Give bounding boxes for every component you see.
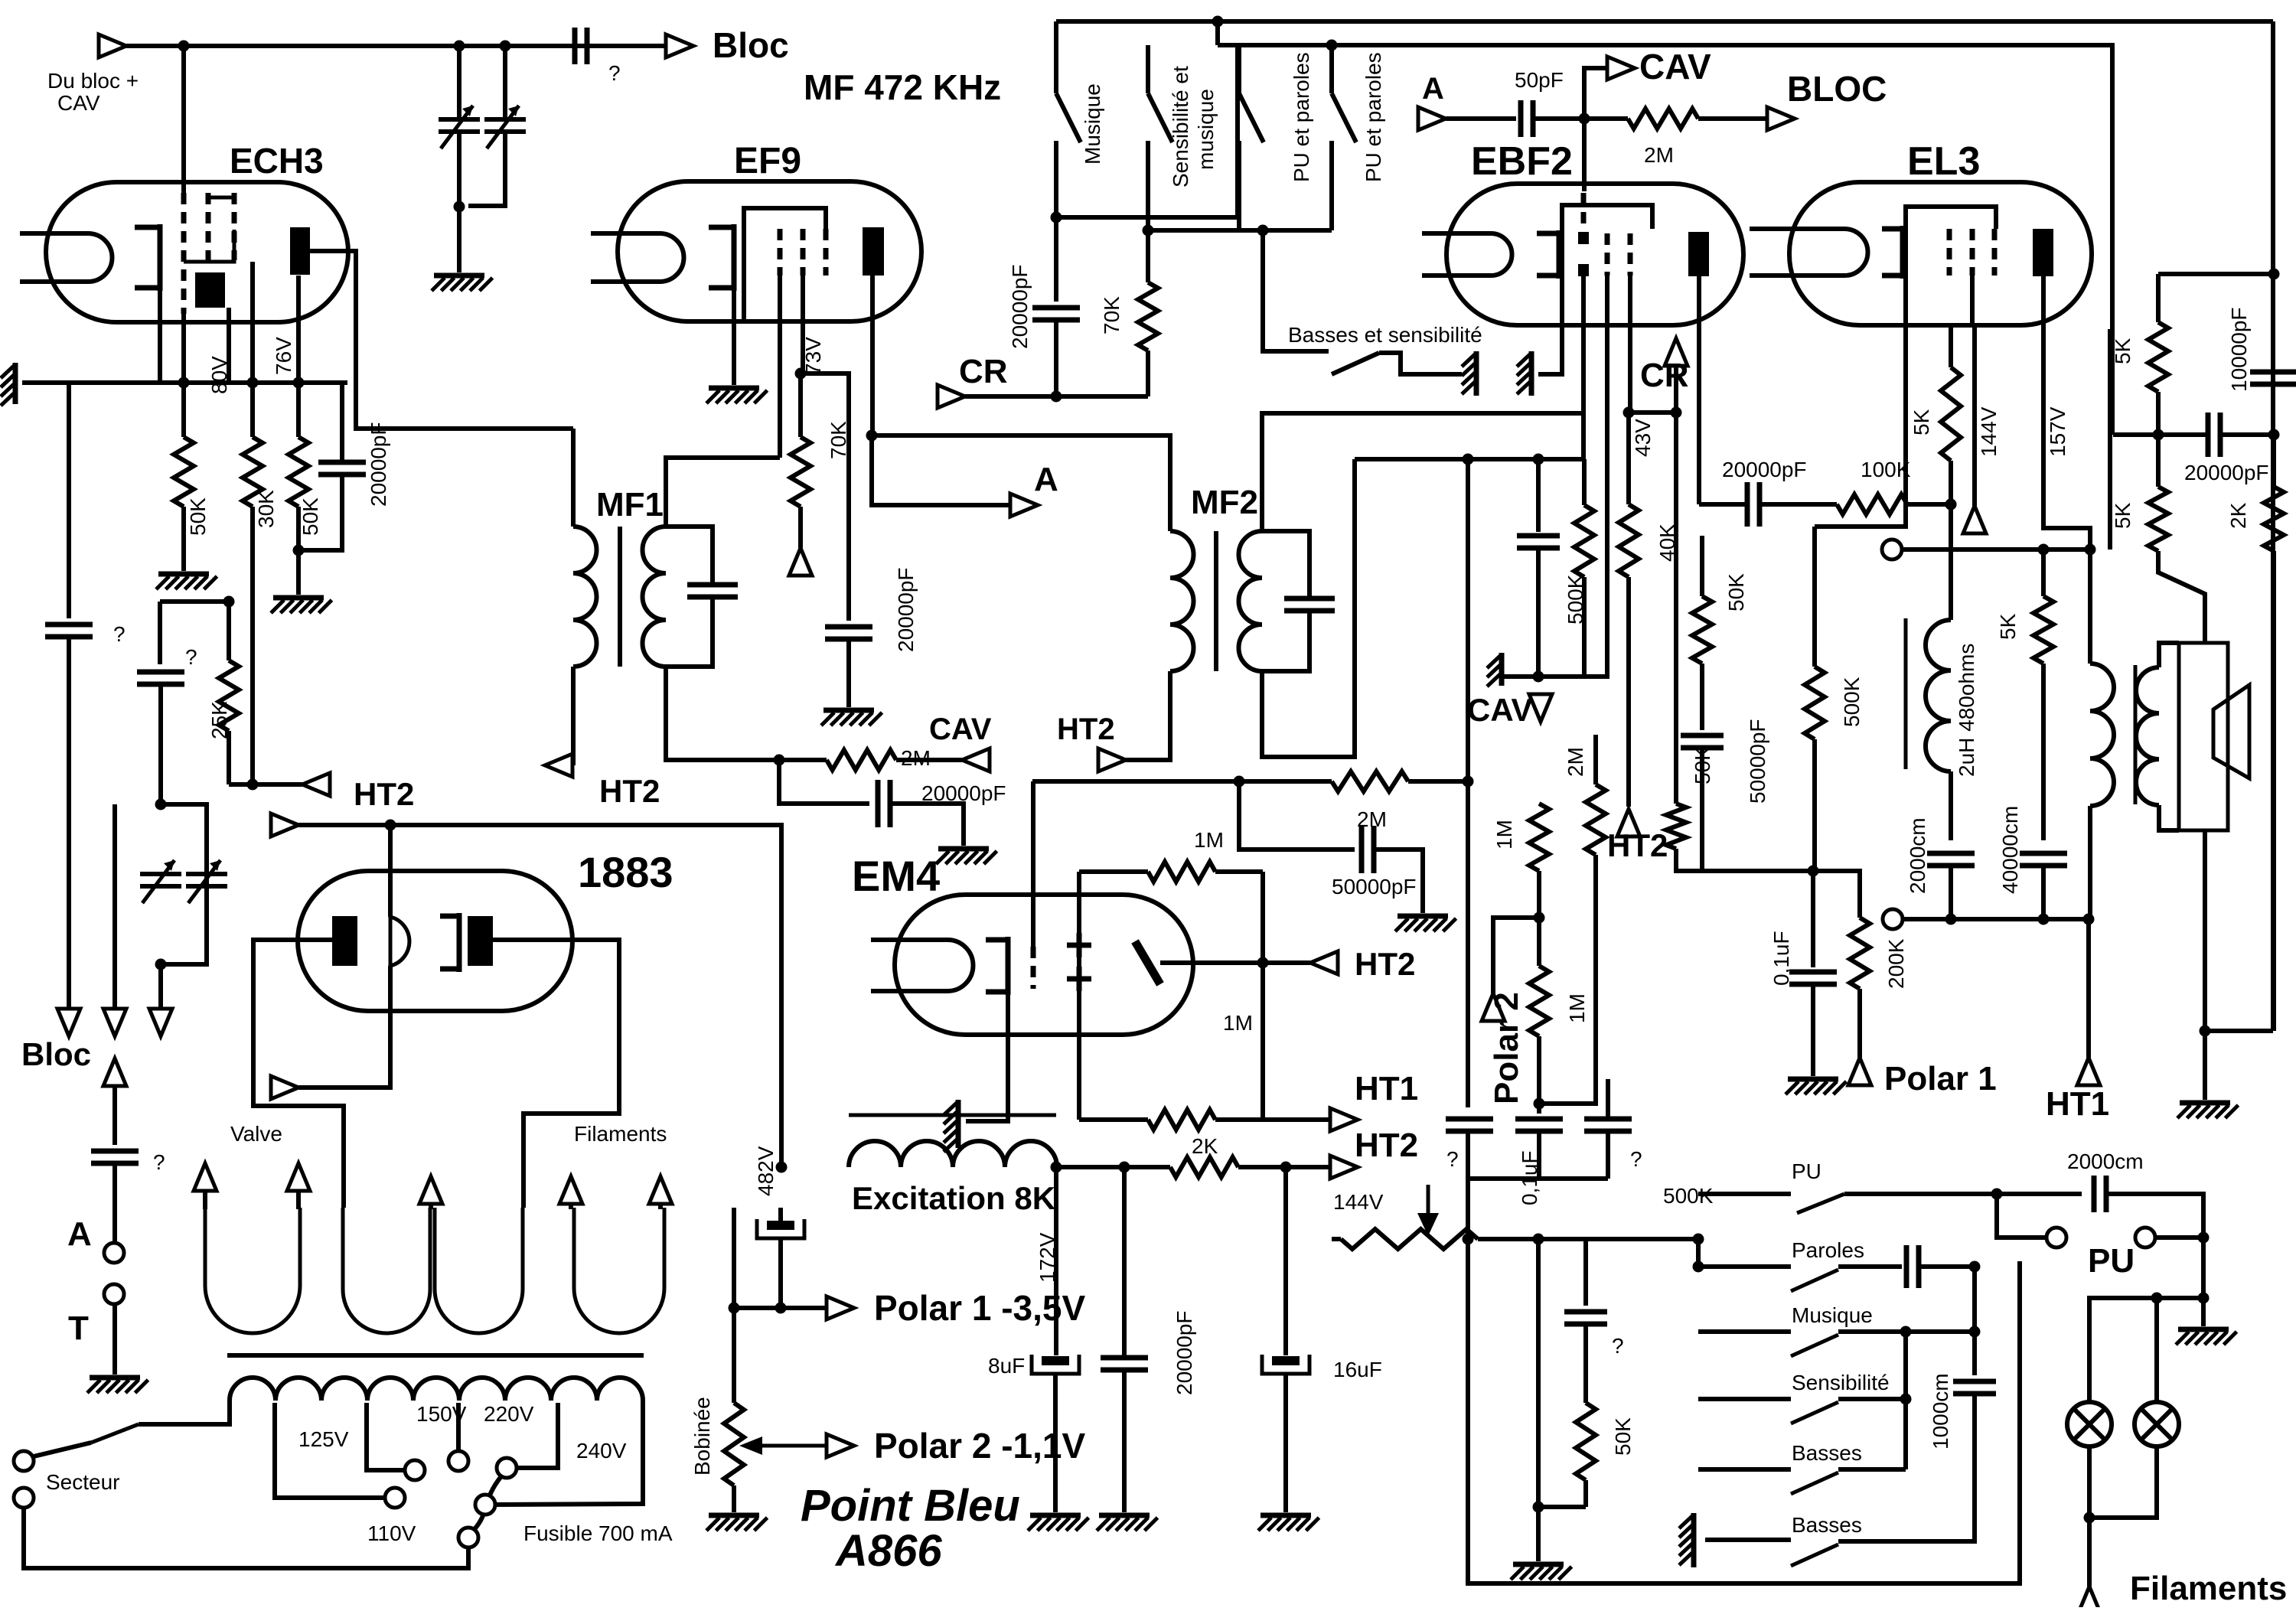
junction: [155, 799, 167, 810]
ground: [1487, 653, 1502, 686]
tube label ECH3: [230, 141, 324, 181]
junction: [1534, 1098, 1545, 1110]
grid EL3 g1: [1947, 229, 1952, 276]
wire HT2 bus: [298, 825, 781, 1167]
svg-text:Excitation 8K: Excitation 8K: [852, 1180, 1055, 1216]
svg-text:Filaments: Filaments: [2130, 1570, 2287, 1607]
capacitor ?: [45, 625, 93, 637]
svg-text:Valve: Valve: [230, 1122, 282, 1146]
label 80V: [207, 356, 231, 394]
terminal PU jack 1: [2047, 1228, 2066, 1247]
svg-text:HT2: HT2: [1355, 946, 1415, 982]
coil MF2 secondary: [1238, 531, 1262, 671]
core excitation: [849, 1114, 1056, 1117]
terminal 110V: [385, 1488, 405, 1508]
svg-text:Bloc: Bloc: [21, 1036, 91, 1072]
resistor 50K: [1666, 804, 1686, 849]
wire top right bus: [2271, 21, 2275, 1031]
label HT2: [1057, 713, 1115, 746]
node CAV arrow: [962, 748, 990, 771]
capacitor 50pF: [1521, 100, 1533, 137]
resistor 50K: [1692, 536, 1712, 664]
wire secteur bottom: [24, 1508, 468, 1568]
svg-text:1M: 1M: [1223, 1011, 1253, 1035]
resistor 1M: [1079, 1110, 1263, 1130]
terminal A: [104, 1243, 124, 1263]
wire to BLOC: [1745, 116, 1767, 121]
inductor Excitation 8K: [849, 1141, 1057, 1167]
svg-text:MF 472 KHz: MF 472 KHz: [804, 67, 1001, 107]
node CAV arrow down: [1529, 694, 1552, 722]
wire polcap down: [778, 1238, 783, 1308]
wire cap q col: [1583, 1239, 1588, 1306]
wire HT1 col: [2086, 919, 2091, 1058]
junction: [223, 596, 235, 608]
svg-text:CAV: CAV: [1467, 692, 1533, 728]
node CR arrow up: [1665, 338, 1688, 366]
wire CR stem: [1674, 366, 1678, 413]
label CAV: [1639, 47, 1711, 86]
junction: [1051, 1162, 1062, 1173]
wire left column: [67, 383, 71, 618]
resistor 500K: [1574, 459, 1594, 677]
tube label EBF2: [1471, 139, 1573, 184]
svg-text:PU: PU: [1792, 1159, 1821, 1183]
label A866: [834, 1526, 942, 1576]
resistor 2K: [2264, 435, 2284, 1031]
wire CAV bus: [1466, 459, 1470, 1107]
label 50000pF: [1746, 719, 1769, 804]
svg-text:musique: musique: [1194, 89, 1218, 170]
label 500K: [1564, 574, 1587, 625]
ground: [1097, 1515, 1158, 1531]
node Polar 2 arrow: [827, 1434, 854, 1457]
wire trimmer right: [503, 46, 507, 120]
label 2K: [1192, 1134, 1218, 1158]
label 50K: [1691, 746, 1714, 784]
wire screen lead down: [1560, 325, 1564, 329]
grid EL3 g3: [1992, 229, 1998, 276]
label 50K: [1611, 1417, 1635, 1456]
ground: [1, 363, 15, 406]
label Polar 2: [1488, 992, 1525, 1104]
wire input bus: [126, 44, 586, 48]
wire row paroles wire: [1698, 1264, 1791, 1269]
wire cap ? bottom: [158, 684, 163, 804]
svg-text:2M: 2M: [1644, 143, 1674, 167]
resistor 2M: [779, 750, 962, 770]
label 20000pF: [2184, 461, 2269, 484]
wire lead: [203, 1191, 207, 1209]
svg-text:2000cm: 2000cm: [1906, 817, 1929, 894]
diode plate 2: [1578, 264, 1589, 276]
wire to ground: [296, 550, 301, 595]
label 50K: [1724, 573, 1748, 611]
cathode 1883 bracket: [440, 913, 459, 972]
wire to CAV arrow: [1584, 68, 1607, 119]
label Paroles: [1792, 1238, 1864, 1262]
svg-text:?: ?: [1612, 1334, 1624, 1358]
wire jack right: [2155, 1235, 2203, 1240]
junction: [500, 41, 511, 52]
wire cap bottom: [1054, 320, 1058, 396]
wire 2M top: [1593, 735, 1598, 784]
wire EL3 grid box: [1906, 207, 1996, 325]
trimmer capacitor CV1: [439, 106, 480, 148]
wire osc grid node: [160, 599, 229, 604]
svg-text:1M: 1M: [1565, 993, 1589, 1023]
wire EM4 target column: [1077, 872, 1081, 1120]
node Polar 1 arrow: [1848, 1058, 1871, 1085]
svg-text:20000pF: 20000pF: [367, 422, 390, 507]
wire polar2 branch: [1493, 918, 1539, 993]
resistor 1M: [1529, 804, 1549, 871]
wire g2 lead: [250, 262, 255, 383]
anode EM4 bar: [1135, 941, 1160, 984]
label Polar 1 -3,5V: [874, 1288, 1085, 1328]
tube label EM4: [852, 852, 940, 900]
junction: [1991, 1189, 2003, 1200]
label HT2: [354, 776, 414, 812]
cathode ECH3: [135, 224, 160, 291]
wire 20000 col: [1122, 1167, 1127, 1358]
svg-text:76V: 76V: [272, 337, 295, 375]
svg-text:2K: 2K: [1192, 1134, 1218, 1158]
wire row301: [1148, 228, 1332, 233]
label 20000pF: [921, 781, 1006, 805]
resistor 2M: [1586, 784, 1606, 855]
resistor 40K: [1619, 504, 1639, 807]
svg-text:Sensibilité et: Sensibilité et: [1169, 66, 1192, 188]
resistor 50K: [174, 383, 194, 571]
coil MF1 secondary: [642, 527, 666, 667]
wire cap to node: [1534, 116, 1584, 121]
resistor 50K: [1576, 1403, 1596, 1507]
switch Sensibilité: [1791, 1402, 1838, 1423]
junction: [2151, 1293, 2163, 1304]
label 2M: [1564, 747, 1587, 777]
ground: [821, 710, 882, 726]
svg-text:2M: 2M: [901, 746, 931, 770]
svg-text:10000pF: 10000pF: [2227, 307, 2251, 392]
wire 50K column: [1674, 413, 1678, 804]
node A arrow: [1010, 494, 1038, 517]
label PU: [2088, 1242, 2135, 1280]
label 50000pF: [1332, 875, 1417, 898]
wire basses link: [1838, 1467, 1906, 1472]
svg-text:40K: 40K: [1655, 523, 1679, 562]
capacitor 20000pF: [825, 627, 872, 639]
label 144V: [1333, 1190, 1384, 1214]
wire MF1 cap: [666, 527, 713, 585]
svg-text:50K: 50K: [186, 497, 210, 536]
wire PU row: [1698, 1192, 1791, 1196]
wire 50000 row: [1239, 781, 1355, 850]
wire second bus: [1218, 45, 2112, 435]
svg-text:5K: 5K: [2111, 502, 2135, 529]
capacitor 10000pF: [2250, 372, 2296, 384]
wire selector cable: [475, 1476, 501, 1529]
label 20000pF: [1008, 264, 1032, 349]
label PU et paroles: [1290, 52, 1313, 182]
lamp dial 1: [2067, 1402, 2112, 1446]
capacitor 20000pF: [318, 462, 366, 474]
junction: [1693, 1234, 1704, 1245]
node Polar 2 arrow: [1482, 993, 1505, 1021]
svg-text:20000pF: 20000pF: [1722, 458, 1807, 481]
label 70K: [827, 421, 850, 459]
junction: [2198, 1232, 2210, 1244]
wire fb diag: [2158, 551, 2205, 643]
svg-text:20000pF: 20000pF: [1172, 1310, 1196, 1395]
ground: [156, 574, 217, 589]
svg-text:144V: 144V: [1333, 1190, 1384, 1214]
label 10000pF: [2227, 307, 2251, 392]
label 30K: [254, 490, 278, 528]
wire EL3 grid down: [1815, 325, 1906, 527]
core MF2: [1214, 531, 1218, 671]
ground: [1517, 351, 1531, 396]
svg-text:Polar 2 -1,1V: Polar 2 -1,1V: [874, 1426, 1085, 1466]
wire antenna column: [113, 804, 117, 1009]
wire 1000cm col: [1972, 1267, 1977, 1375]
wire EBF2 g3 down: [1628, 276, 1632, 413]
wire 8uF gnd: [1053, 1374, 1058, 1512]
junction: [1671, 407, 1682, 419]
ground: [87, 1378, 148, 1393]
wire grid1 input: [181, 46, 186, 193]
resistor 200K: [1850, 918, 1870, 1058]
svg-text:PU: PU: [2088, 1242, 2135, 1280]
wire 1883 right anode: [493, 940, 619, 1208]
label ?: [1612, 1334, 1624, 1358]
junction: [2085, 544, 2096, 556]
label 76V: [272, 337, 295, 375]
svg-text:Paroles: Paroles: [1792, 1238, 1864, 1262]
wire trimmer join: [457, 132, 461, 207]
switch PU et paroles 2 contact 2: [1329, 141, 1334, 230]
node arrow up: [103, 1058, 126, 1086]
label 1000cm: [1929, 1373, 1952, 1450]
junction: [1533, 454, 1544, 465]
wire speaker down: [2203, 830, 2207, 1031]
svg-text:T: T: [68, 1309, 89, 1347]
switch PU: [1797, 1194, 1844, 1213]
svg-text:Polar 1 -3,5V: Polar 1 -3,5V: [874, 1288, 1085, 1328]
label 500K: [1663, 1184, 1714, 1208]
node HT2 arrow: [1098, 748, 1126, 771]
anode EL3: [2033, 229, 2053, 276]
tube ECH3 envelope: [46, 182, 348, 322]
svg-text:150V: 150V: [416, 1402, 467, 1426]
label 5K: [2111, 502, 2135, 529]
wire 50K bot: [1538, 1505, 1586, 1509]
core output transformer: [2134, 665, 2138, 804]
cathode EM4: [986, 937, 1008, 995]
coil MF2 primary: [1170, 531, 1193, 671]
resistor 70K: [1138, 230, 1158, 351]
wire bottom bus: [1468, 1176, 1608, 1181]
wire MF2 sec to grid: [1262, 413, 1582, 531]
ground: [1395, 916, 1456, 931]
label 2M: [1644, 143, 1674, 167]
capacitor: [1517, 536, 1560, 548]
junction: [1051, 212, 1062, 223]
resistor 1M: [1529, 966, 1549, 1036]
junction: [454, 201, 465, 213]
junction: [247, 377, 259, 389]
label 240V: [576, 1439, 627, 1463]
svg-text:125V: 125V: [298, 1427, 349, 1451]
wire 70K bottom: [1146, 351, 1150, 396]
anode ECH3 oscillator: [195, 272, 225, 308]
svg-text:HT2: HT2: [354, 776, 414, 812]
wire cap gnd: [1811, 984, 1815, 1076]
label HT1: [2046, 1085, 2109, 1123]
wire row718: [1902, 547, 2090, 552]
junction: [2268, 429, 2280, 441]
switch Sensibilite blade: [1148, 93, 1172, 142]
label 220V: [484, 1402, 534, 1426]
wire lamp1 down: [2087, 1446, 2092, 1587]
wire paroles cap2: [1919, 1264, 1975, 1269]
label ?: [1446, 1147, 1459, 1171]
label 2K: [2226, 502, 2250, 529]
switch Basses 2: [1791, 1544, 1838, 1566]
coil MF1 primary: [573, 429, 596, 667]
switch Paroles: [1791, 1270, 1838, 1291]
svg-text:50K: 50K: [298, 497, 322, 536]
junction: [2083, 914, 2095, 925]
svg-text:HT2: HT2: [1607, 827, 1668, 863]
label Bloc: [21, 1036, 91, 1072]
label Filaments: [2130, 1570, 2287, 1607]
capacitor ?: [137, 672, 184, 684]
core transformer: [227, 1353, 644, 1358]
junction: [2198, 1293, 2210, 1304]
capacitor 50000pF: [1681, 735, 1724, 748]
svg-text:CAV: CAV: [929, 713, 992, 746]
svg-text:CAV: CAV: [1639, 47, 1711, 86]
wire trimmer right down: [468, 132, 505, 206]
svg-text:20000pF: 20000pF: [2184, 461, 2269, 484]
wire basses2 left: [1705, 1538, 1791, 1542]
svg-text:144V: 144V: [1977, 406, 2001, 457]
coil output primary: [2090, 664, 2114, 806]
wire to HT2: [253, 782, 302, 787]
svg-text:HT2: HT2: [599, 773, 660, 809]
wire to 2M column: [1539, 855, 1596, 1104]
tube label EL3: [1907, 139, 1980, 184]
capacitor 8uF: [1032, 1355, 1079, 1374]
terminal fusible: [475, 1495, 495, 1515]
wire padder loop: [161, 804, 207, 964]
wire MF2 cap bottom: [1262, 611, 1309, 671]
switch Musique contact 2: [1054, 141, 1058, 217]
potentiometer 500K: [1332, 1229, 1698, 1249]
wire lamp2 feed: [2154, 1298, 2159, 1402]
transformer label MF1: [596, 486, 664, 523]
capacitor 20000pF: [2208, 413, 2220, 457]
junction: [293, 377, 305, 389]
grid ECH3 g4: [232, 193, 237, 260]
svg-text:220V: 220V: [484, 1402, 534, 1426]
label 1M: [1223, 1011, 1253, 1035]
wire jog: [1215, 21, 1220, 45]
svg-text:172V: 172V: [1035, 1232, 1059, 1283]
label 20000pF: [1722, 458, 1807, 481]
terminal PU jack 2: [2135, 1228, 2155, 1247]
junction: [774, 755, 785, 766]
wire row basses wire: [1698, 1467, 1791, 1472]
wire 5K low: [2041, 664, 2046, 840]
core choke: [1904, 618, 1908, 769]
wire primary end: [495, 1401, 643, 1505]
wire 172V col: [1054, 1167, 1058, 1355]
wire EF9 cathode to ground: [732, 291, 736, 385]
svg-text:?: ?: [608, 61, 621, 85]
node winding arrow: [419, 1176, 442, 1204]
tube EL3 envelope: [1789, 182, 2092, 325]
wire MF1 cap2: [666, 597, 713, 667]
ground: [2177, 1103, 2239, 1118]
heater EF9: [591, 233, 684, 282]
svg-text:EBF2: EBF2: [1471, 139, 1573, 184]
wire 50K to cap: [1700, 664, 1704, 730]
anode 1883 left: [332, 916, 357, 966]
junction: [2153, 429, 2164, 441]
wire EF9 g1 down: [778, 276, 782, 458]
label 5K: [1996, 613, 2020, 640]
wire pot bottom: [732, 1485, 736, 1512]
wire lead: [296, 1191, 301, 1209]
terminal T: [104, 1284, 124, 1304]
label A: [1422, 72, 1444, 106]
wire sens link: [1838, 1397, 1906, 1401]
resistor 2M: [1584, 109, 1745, 129]
junction: [1693, 1261, 1704, 1273]
label HT2: [599, 773, 660, 809]
label 70K: [1100, 296, 1124, 334]
heater EM4: [871, 940, 974, 991]
label 2M: [901, 746, 931, 770]
winding primary: [230, 1378, 643, 1401]
junction: [1326, 40, 1338, 51]
junction: [1051, 391, 1062, 403]
wire EL3 cathode down: [1949, 325, 1953, 367]
svg-text:PU et paroles: PU et paroles: [1362, 52, 1385, 182]
junction: [1463, 1234, 1474, 1245]
switch Basses: [1791, 1472, 1838, 1494]
capacitor 50000pF: [1362, 826, 1374, 873]
junction: [1623, 407, 1635, 419]
winding valve: [205, 1208, 300, 1333]
wire primary bottom: [2088, 806, 2092, 919]
node HT1 arrow: [2077, 1058, 2100, 1085]
svg-text:40000cm: 40000cm: [1998, 806, 2022, 894]
node HT2 arrow: [1330, 1156, 1358, 1179]
trimmer capacitor padder2: [186, 860, 227, 903]
tube label 1883: [578, 848, 673, 896]
wire 1000cm down: [1838, 1394, 1975, 1541]
wire to winding: [139, 1401, 230, 1424]
label 50K: [298, 497, 322, 536]
speaker cone: [2213, 685, 2249, 778]
wire 1M join: [1537, 871, 1541, 966]
label CR: [1640, 357, 1689, 394]
junction: [155, 959, 167, 970]
wire det cap: [1536, 459, 1541, 532]
